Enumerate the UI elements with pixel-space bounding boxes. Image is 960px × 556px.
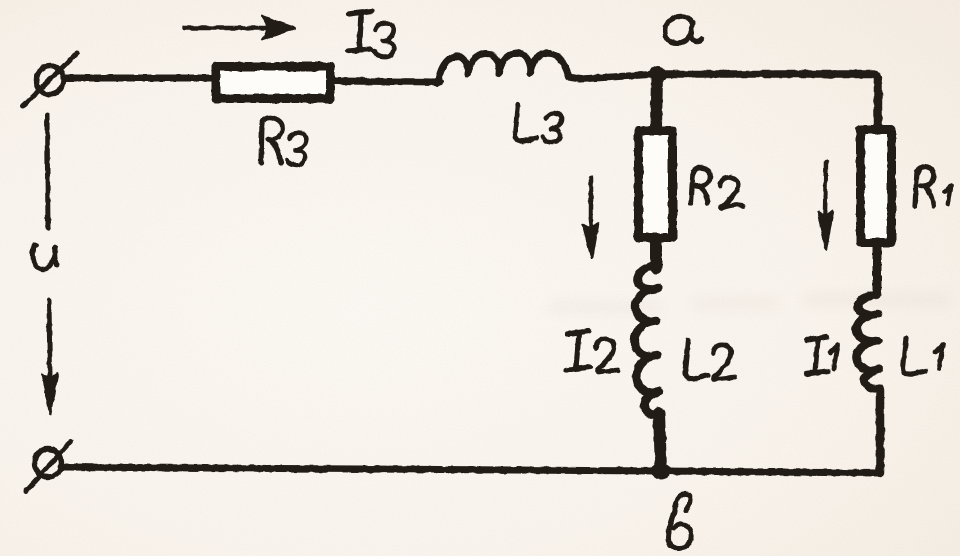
label R2: [691, 167, 743, 208]
label v (source voltage): [33, 245, 57, 270]
current arrow I1 direction (beside R1): [818, 162, 833, 249]
wire: L3 to node a: [580, 74, 658, 79]
label I1: [806, 337, 838, 374]
wire: L1 to bottom-right corner: [876, 390, 885, 473]
node b junction dot: [652, 464, 670, 479]
inductor L1: [856, 294, 879, 389]
voltage arrow v: lower segment with head: [42, 300, 58, 414]
wire: R3 to inductor L3: [335, 81, 440, 82]
wire: node a down to R2: [656, 74, 657, 128]
label b (node b, Cyrillic ve): [668, 494, 691, 548]
wire: R2 to L2: [650, 240, 662, 268]
inductor L3: [438, 53, 580, 83]
resistor R1: [861, 130, 892, 243]
faint bleed-through text from reverse page: [548, 293, 950, 313]
label I3: [348, 11, 394, 57]
resistor R3: [216, 67, 331, 99]
wire: right vertical down to R1: [874, 84, 883, 128]
resistor R2: [639, 131, 673, 238]
label L2: [685, 340, 735, 379]
wire: R1 to L1: [873, 243, 882, 295]
wire: L2 to node b: [659, 413, 661, 470]
label I2: [566, 331, 618, 372]
terminal T2 (bottom-left input): [26, 441, 71, 491]
terminal T1 (top-left input): [23, 53, 77, 106]
current arrow I3: [184, 16, 295, 40]
label L1: [903, 338, 943, 374]
label R1: [915, 166, 951, 206]
label a (node a): [665, 16, 702, 43]
wire: T1 to resistor R3: [64, 75, 213, 82]
voltage arrow v: upper segment: [47, 115, 48, 228]
label R3: [261, 118, 306, 166]
node a junction dot: [650, 67, 666, 81]
current arrow I2 direction (beside R2): [583, 178, 598, 258]
wire bottom: T2 to node b to bottom-right corner: [61, 467, 880, 473]
wire: node a to top-right corner: [658, 74, 878, 86]
label L3: [515, 104, 562, 142]
inductor L2: [634, 265, 659, 415]
